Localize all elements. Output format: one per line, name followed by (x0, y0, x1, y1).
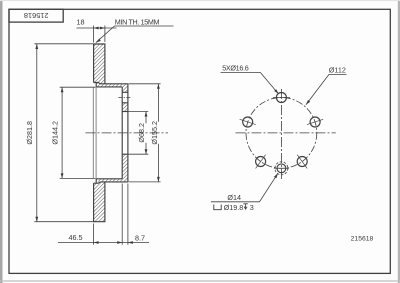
bolt hole lower-right tick (297, 155, 307, 169)
arrow 155.2 top (157, 84, 160, 89)
arrow 14 leader (274, 173, 278, 178)
dim 144.2 line (61, 87, 63, 178)
bolt hole left tick (240, 119, 256, 124)
dim 144.2 extension lines (60, 87, 96, 178)
leader 112 (306, 74, 347, 104)
leader 14 note (211, 173, 278, 202)
bolt hole lower-left (256, 157, 266, 167)
arrow 68.2 bottom (145, 149, 148, 154)
section centerline (86, 132, 169, 134)
svg-text:Ø144.2: Ø144.2 (50, 121, 59, 145)
pin hole tick (274, 167, 289, 169)
mounting face edges (122, 84, 128, 182)
title box (9, 9, 63, 22)
bolt hole left (243, 117, 253, 127)
arrow 112 leader (306, 100, 310, 105)
svg-text:215618: 215618 (24, 11, 49, 20)
counterbore symbol (214, 205, 221, 210)
dim 155.2 extension lines (129, 84, 161, 182)
depth symbol (243, 204, 247, 209)
dim 46.5 / 8.7 extension lines (94, 184, 128, 245)
dim 281.8 extension lines (34, 44, 93, 222)
svg-text:Ø19.8: Ø19.8 (224, 203, 244, 212)
dim 18 line (77, 27, 117, 29)
svg-text:215618: 215618 (351, 236, 374, 243)
ring inner bore silhouette lines (93, 87, 96, 178)
arrow 144.2 top (61, 87, 64, 92)
arrow 46.5 right (117, 241, 122, 244)
min th leader (96, 26, 174, 43)
bolt hole top tick (273, 97, 290, 99)
section hatch: face bottom band (122, 154, 128, 182)
arrow 18 left (94, 27, 99, 30)
bolt hole lower-right (297, 157, 307, 167)
svg-text:Ø68.2: Ø68.2 (137, 123, 146, 143)
dim 155.2 line (157, 84, 159, 182)
dim 68.2 line (145, 112, 147, 155)
dim 18 extension lines (94, 26, 105, 43)
dim 281.8 line (36, 44, 38, 222)
scan edge right (398, 0, 400, 283)
svg-text:18: 18 (77, 17, 85, 26)
section hatch: face mid band top (122, 103, 128, 112)
ring bar bottom outline (94, 182, 105, 222)
bore edge bottom (122, 153, 128, 155)
scan edge bottom (0, 280, 400, 282)
hat web bottom outline (96, 179, 128, 183)
bolt hole right (310, 117, 320, 127)
dim 68.2 extension lines (129, 112, 149, 155)
svg-text:Ø155.2: Ø155.2 (150, 121, 159, 145)
arrow 281.8 bottom (35, 217, 38, 222)
svg-text:Ø112: Ø112 (329, 65, 346, 74)
dim 46.5 / 8.7 line (58, 242, 149, 244)
bolt hole cut in face (122, 92, 128, 103)
ring bar top outline (94, 44, 105, 84)
arrow 281.8 top (35, 44, 38, 49)
hat web top outline (96, 83, 128, 87)
svg-text:Ø281.8: Ø281.8 (25, 121, 34, 145)
bolt hole top (276, 93, 286, 103)
section hatch: ring bar bottom (94, 182, 105, 222)
svg-text:Ø14: Ø14 (227, 193, 241, 202)
bolt circle (246, 97, 317, 168)
bolt hole right tick (307, 119, 323, 124)
section hatch: hat web top (96, 83, 128, 92)
scan edge left (0, 0, 3, 283)
bolt hole lower-left tick (256, 155, 266, 169)
svg-text:46.5: 46.5 (69, 233, 83, 242)
section hatch: ring bar top (94, 44, 105, 84)
arrow 68.2 top (145, 112, 148, 117)
arrow 8.7 (128, 241, 133, 244)
svg-text:MIN TH. 15MM: MIN TH. 15MM (115, 17, 160, 26)
section hatch: hat web bottom (96, 179, 122, 182)
arrow 155.2 bottom (157, 177, 160, 182)
right view vertical centerline (280, 89, 282, 181)
arrow 18 right (100, 27, 105, 30)
right view horizontal centerline (236, 132, 336, 134)
arrow min th leader (96, 39, 101, 43)
svg-text:5XØ16.6: 5XØ16.6 (222, 64, 249, 73)
bore edge top (122, 111, 128, 113)
pin hole (277, 164, 286, 173)
arrow 46.5 left (94, 241, 99, 244)
svg-text:8.7: 8.7 (135, 233, 145, 242)
bolt hole centerline (118, 97, 131, 99)
arrow 144.2 bottom (61, 173, 64, 178)
scan edge top (0, 0, 400, 2)
arrowheads (35, 27, 310, 244)
svg-text:3: 3 (250, 203, 254, 212)
arrow 5x16.6 leader (274, 89, 278, 94)
leader 5x16.6 (221, 73, 279, 94)
pin counterbore (dashed) (275, 162, 288, 175)
